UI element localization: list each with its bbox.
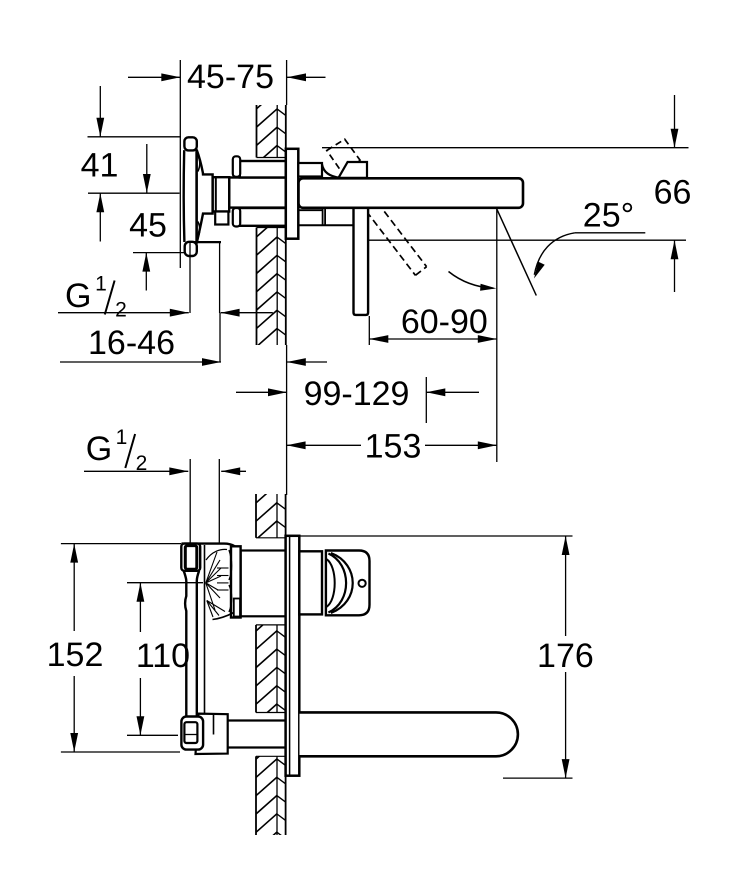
svg-text:60-90: 60-90 [401, 303, 488, 341]
svg-text:25°: 25° [583, 196, 634, 234]
svg-text:G: G [86, 430, 112, 468]
svg-text:1: 1 [95, 273, 107, 296]
svg-text:41: 41 [81, 146, 119, 184]
svg-text:176: 176 [537, 637, 594, 675]
svg-text:45: 45 [129, 206, 167, 244]
svg-text:99-129: 99-129 [304, 375, 410, 413]
svg-text:2: 2 [115, 299, 127, 322]
svg-text:16-46: 16-46 [88, 324, 175, 362]
svg-text:152: 152 [47, 636, 104, 674]
svg-text:66: 66 [654, 174, 692, 212]
svg-text:110: 110 [136, 637, 190, 675]
svg-text:45-75: 45-75 [187, 58, 274, 96]
svg-text:1: 1 [116, 426, 128, 449]
svg-text:153: 153 [365, 428, 422, 466]
svg-text:G: G [65, 277, 91, 315]
